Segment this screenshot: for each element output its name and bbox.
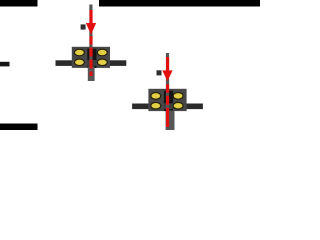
component X2 pad 4	[173, 102, 183, 109]
component X1 body window upper	[87, 49, 96, 61]
component X1 pad 4	[97, 59, 107, 66]
component X2 top wire	[166, 53, 169, 90]
component X2 marker square	[157, 70, 162, 75]
component X1 body bridge	[87, 60, 96, 66]
component X1 bottom stub	[88, 67, 95, 82]
component X1 arm band (side leads)	[56, 60, 127, 66]
component X1 body window lower	[87, 66, 96, 68]
component X2 wire through pads	[166, 90, 169, 130]
component X1 marker square	[81, 24, 86, 29]
component X2 pad body	[148, 89, 186, 111]
component X2 pad 1	[151, 93, 161, 100]
component X2 pad 2	[151, 102, 161, 109]
component X2 current arrow shaft	[166, 57, 169, 71]
component X1 pad 2	[74, 59, 84, 66]
component X2 bottom stub	[166, 111, 175, 131]
component X1 top wire	[89, 5, 92, 48]
component X1 pad body	[72, 47, 110, 68]
component X1 wire through pads	[89, 47, 92, 81]
component X2 current arrow head	[162, 70, 172, 81]
top-right black bar (cropped rule)	[99, 0, 260, 7]
component X2 arm band (side leads)	[132, 104, 203, 110]
bottom-left black bar (cropped rule)	[0, 124, 38, 131]
component X2 body window lower	[164, 109, 173, 111]
component X1 pad 3	[97, 49, 107, 56]
left-edge nub	[0, 62, 10, 67]
component X2 body window upper	[164, 91, 173, 104]
top-left black bar (cropped rule)	[0, 0, 38, 7]
component X2 pad 3	[173, 93, 183, 100]
component X2 body bridge	[164, 103, 173, 109]
component X1 current arrow head	[86, 23, 96, 35]
component X2 red dashed line	[166, 84, 169, 127]
component X1 current arrow shaft	[90, 10, 93, 24]
component X1 pad 1	[74, 49, 84, 56]
component X1 red dashed line	[90, 36, 93, 76]
